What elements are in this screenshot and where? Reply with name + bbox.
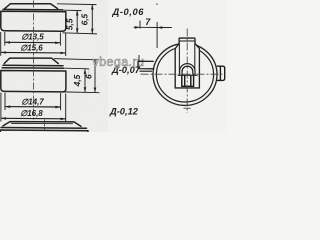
svg-text:6,5: 6,5	[80, 13, 90, 25]
dim Ø14,7	[5, 93, 61, 111]
cell F3 flange line	[1, 127, 87, 130]
cell F1 lid	[5, 4, 58, 9]
vertical centerline top view	[186, 29, 188, 114]
svg-text:vbega.ru: vbega.ru	[93, 55, 145, 69]
cell F3 body top	[0, 130, 88, 132]
F2 height dims	[54, 59, 100, 93]
dim Ø13,5	[5, 32, 61, 46]
cell F1 flange line	[3, 8, 63, 11]
strap fold line	[179, 40, 195, 42]
cell F2 body	[1, 71, 66, 92]
cell F2 lid	[4, 58, 58, 64]
inner ring	[156, 47, 213, 102]
centerline tick	[184, 107, 191, 109]
svg-text:4,5: 4,5	[72, 74, 82, 87]
centerline F1	[33, 1, 35, 56]
horizontal centerline top view	[141, 73, 226, 75]
center dome	[180, 64, 195, 76]
svg-text:∅14,7: ∅14,7	[21, 97, 44, 106]
svg-text:Д-0,12: Д-0,12	[109, 107, 139, 117]
svg-text:5,5: 5,5	[64, 18, 74, 30]
svg-text:∅13,5: ∅13,5	[21, 33, 44, 42]
dome base line	[178, 74, 198, 76]
F1 height dims	[57, 4, 97, 34]
svg-text:Д-0,06: Д-0,06	[112, 7, 145, 17]
cell F1 body	[1, 11, 66, 31]
speck	[156, 3, 158, 5]
centerline F2	[33, 57, 35, 121]
strap band	[175, 38, 199, 88]
dim Ø16,8	[1, 93, 66, 122]
svg-text:т: т	[87, 67, 91, 76]
cell F3 lid	[3, 122, 81, 127]
dome inner arc	[182, 66, 193, 75]
svg-text:∅16,8: ∅16,8	[20, 109, 43, 118]
right ear tab	[217, 66, 225, 80]
svg-text:∅15,6: ∅15,6	[20, 43, 43, 52]
outer ring	[153, 43, 217, 105]
cell F2 flange lines	[2, 65, 64, 68]
strap inner edges	[179, 44, 194, 76]
dim 7	[134, 21, 172, 62]
left ear tab	[138, 61, 154, 69]
crimp block	[182, 75, 194, 86]
centerline F3	[44, 120, 46, 133]
dim Ø15,6	[1, 32, 66, 56]
